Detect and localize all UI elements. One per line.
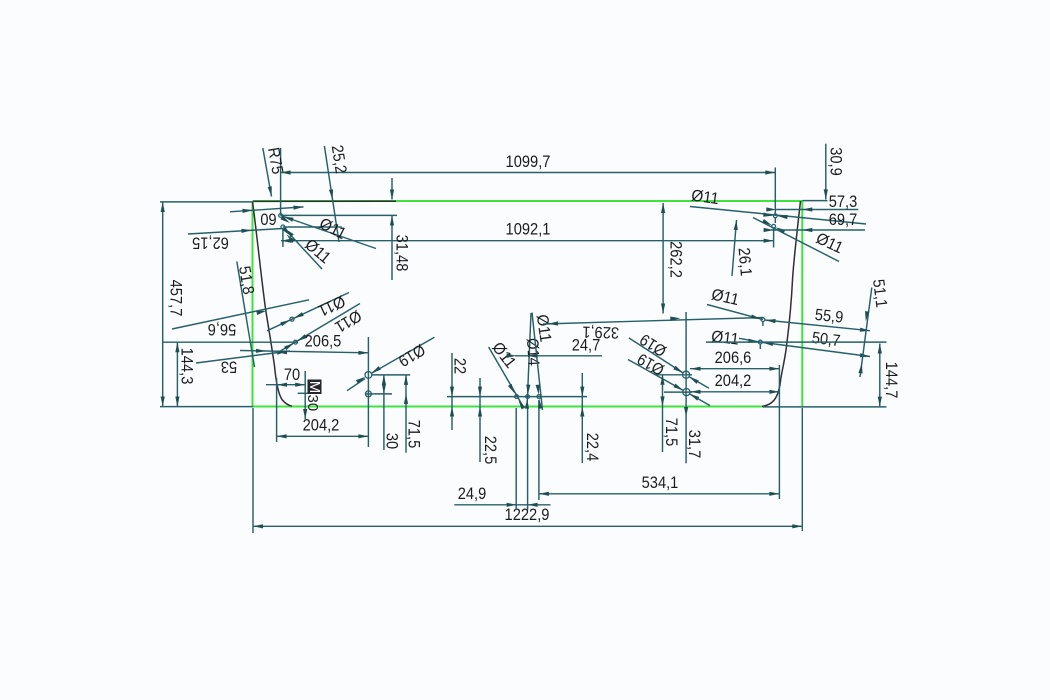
leader Ø19 right 1	[629, 330, 709, 388]
svg-text:70: 70	[284, 366, 300, 384]
svg-text:55,9: 55,9	[814, 306, 844, 327]
svg-text:204,2: 204,2	[303, 417, 340, 435]
dimension 329,1	[543, 316, 763, 341]
svg-text:Ø11: Ø11	[710, 327, 740, 348]
part outline (green reference rectangle)	[253, 200, 803, 202]
leader Ø19 left	[347, 337, 434, 390]
leader Ø11 center-left hole	[488, 339, 525, 410]
svg-text:206,5: 206,5	[305, 333, 342, 351]
dimension 262,2	[661, 203, 685, 314]
dimension 22	[450, 353, 469, 430]
dimension 60	[230, 205, 304, 228]
dimension 51,8	[235, 262, 257, 368]
extension line bottom-left	[160, 406, 253, 408]
dimension 30,9	[824, 144, 845, 200]
mid-left holes	[290, 317, 297, 344]
svg-text:30: 30	[304, 395, 321, 412]
dimension 24,7	[507, 337, 602, 358]
right Ø19 hole pair	[655, 312, 692, 417]
svg-text:30: 30	[383, 433, 401, 449]
dimension 457,7	[161, 202, 185, 407]
leader Ø11 mid-left hole A	[267, 292, 349, 331]
dimension 1099,7	[281, 153, 776, 175]
leader Ø11 top-right hole 2	[753, 218, 846, 262]
svg-text:1092,1: 1092,1	[506, 221, 551, 239]
dimension 22,5	[478, 378, 499, 464]
leader Ø11 top-left hole 2	[283, 227, 334, 269]
leader Ø11 mid-left hole B	[277, 304, 365, 354]
svg-text:22,4: 22,4	[583, 433, 601, 462]
svg-text:71,5: 71,5	[662, 418, 680, 447]
svg-text:26,1: 26,1	[734, 247, 754, 277]
dimension 30 bottom	[382, 375, 401, 450]
svg-text:144,7: 144,7	[882, 362, 900, 399]
dimension 71,5 right	[660, 375, 680, 452]
dimension 50,7	[762, 329, 870, 359]
dimension 22,4	[580, 373, 601, 463]
leader Ø11 top-left hole 1	[280, 215, 376, 249]
dimension 31,7	[685, 412, 703, 463]
dimension 31,48	[390, 178, 411, 280]
svg-text:31,48: 31,48	[393, 235, 411, 272]
svg-text:57,3: 57,3	[829, 193, 858, 211]
svg-text:71,5: 71,5	[405, 420, 423, 449]
svg-text:206,6: 206,6	[715, 349, 752, 367]
svg-text:534,1: 534,1	[642, 474, 679, 492]
leader R75	[263, 146, 287, 197]
dimension 69,7	[764, 211, 865, 232]
dimension 55,9	[765, 306, 870, 333]
extension line top-right for 30,9	[802, 200, 827, 202]
leader Ø19 right 2	[628, 349, 710, 405]
extension line 144,3	[163, 341, 298, 343]
svg-text:60: 60	[260, 210, 276, 228]
dimension 1222,9	[253, 408, 802, 533]
leader Ø11 top-right hole 1	[690, 187, 866, 224]
svg-text:62,15: 62,15	[192, 234, 229, 252]
svg-text:262,2: 262,2	[667, 241, 685, 278]
top-left holes	[279, 148, 397, 247]
extension line top-left	[160, 201, 253, 203]
svg-text:22: 22	[451, 358, 469, 374]
svg-text:Ø11: Ø11	[533, 313, 555, 343]
svg-text:50,7: 50,7	[811, 329, 841, 350]
svg-text:Ø11: Ø11	[690, 187, 720, 209]
dimension 144,7	[706, 342, 900, 407]
svg-text:56,6: 56,6	[208, 320, 237, 338]
svg-text:53: 53	[221, 358, 237, 376]
part top edge segment	[253, 200, 396, 202]
dimension 53	[196, 349, 290, 375]
top-right holes	[772, 168, 778, 248]
leader 25,2	[324, 144, 349, 242]
svg-text:69,7: 69,7	[829, 211, 858, 229]
center triple holes	[447, 395, 587, 510]
dimension 62,15	[188, 228, 283, 251]
dimension 534,1	[539, 365, 780, 499]
leader Ø11 center-right hole	[532, 313, 554, 411]
extension line bottom-right	[763, 406, 886, 408]
svg-text:457,7: 457,7	[167, 280, 185, 317]
svg-text:329,1: 329,1	[582, 322, 619, 341]
dimension 71,5 left	[404, 375, 423, 453]
dimension 26,1	[732, 220, 755, 277]
left Ø19 hole pair	[365, 372, 410, 397]
svg-text:144,3: 144,3	[178, 348, 196, 385]
part left edge (actual profile)	[253, 202, 293, 407]
mid-right holes	[758, 318, 764, 349]
dimension 204,2 right	[690, 372, 779, 394]
dimension 57,3	[766, 193, 858, 212]
dimension 204,2 left	[277, 337, 369, 447]
dimension 144,3	[175, 342, 195, 406]
thread M30 center mark	[298, 371, 323, 419]
dimension 24,9	[454, 485, 550, 507]
svg-text:30,9: 30,9	[827, 147, 845, 176]
dimension 206,6	[690, 349, 779, 371]
svg-text:31,7: 31,7	[685, 430, 703, 459]
part right edge (actual profile)	[762, 201, 801, 406]
dimension 56,6	[172, 300, 309, 338]
svg-text:22,5: 22,5	[481, 436, 499, 465]
svg-text:M: M	[306, 381, 323, 394]
svg-text:51,1: 51,1	[869, 278, 890, 308]
dimension 51,1	[858, 278, 890, 377]
svg-text:1099,7: 1099,7	[506, 153, 551, 171]
leader Ø14 center hole	[523, 313, 542, 409]
svg-text:204,2: 204,2	[715, 372, 752, 390]
dimension 206,5	[240, 333, 368, 355]
dimension 70	[266, 366, 305, 387]
svg-text:24,9: 24,9	[458, 485, 487, 503]
dimension 1092,1	[281, 221, 774, 243]
leader Ø11 mid-right hole 2	[710, 327, 760, 348]
leader Ø11 mid-right hole 1	[707, 285, 763, 321]
